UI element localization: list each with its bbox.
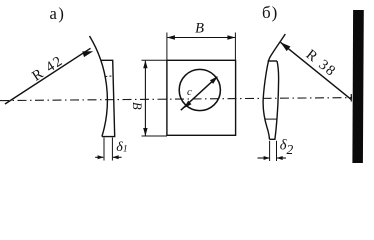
svg-text:B: B [195, 21, 204, 37]
svg-text:c: c [187, 86, 192, 98]
svg-text:R 42: R 42 [29, 53, 66, 85]
svg-text:δ1: δ1 [116, 140, 127, 155]
svg-text:а): а) [50, 4, 66, 23]
svg-text:δ2: δ2 [280, 138, 294, 157]
svg-text:B: B [130, 102, 144, 110]
svg-text:б): б) [262, 3, 278, 22]
